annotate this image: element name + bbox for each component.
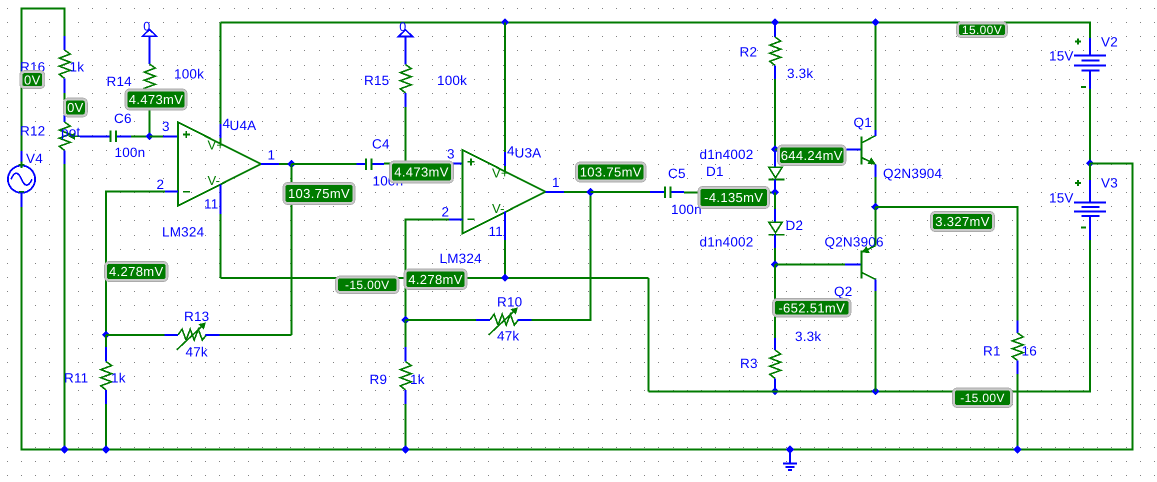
svg-text:U3A: U3A bbox=[515, 145, 542, 160]
wire U3A pin 2 left bbox=[449, 218, 463, 220]
resistor R9 1k bbox=[405, 320, 407, 347]
junction R1 bottom ground rail bbox=[1013, 445, 1021, 453]
wire U4A output node down bbox=[291, 164, 293, 335]
wire V3 minus down to rail bbox=[1089, 240, 1091, 392]
wire node A to U4A pin 3 bbox=[150, 135, 164, 137]
wire Q2 collector down bbox=[875, 280, 877, 292]
junction R2 top rail bbox=[771, 18, 779, 26]
svg-text:d1n4002: d1n4002 bbox=[700, 147, 754, 162]
wire C4 to U3A pin 3 bbox=[384, 163, 449, 165]
node A junction C6/R14/pin3 bbox=[145, 132, 153, 140]
battery V3 15V bbox=[1074, 202, 1106, 204]
wire Q2 base wire bbox=[775, 264, 845, 266]
svg-text:R9: R9 bbox=[370, 372, 388, 387]
voltage label 4.473mV at C4/U3A bbox=[390, 161, 454, 183]
svg-text:Q2N3904: Q2N3904 bbox=[883, 166, 942, 181]
svg-text:R15: R15 bbox=[364, 73, 389, 88]
junction D1 anode node bbox=[771, 145, 779, 153]
svg-text:C5: C5 bbox=[668, 166, 686, 181]
resistor R11 1k bbox=[105, 335, 107, 347]
svg-text:100k: 100k bbox=[174, 66, 204, 81]
junction U3A output node bbox=[586, 188, 594, 196]
svg-text:3.3k: 3.3k bbox=[787, 66, 813, 81]
wire Q1 emitter down bbox=[875, 165, 877, 177]
svg-text:3.327mV: 3.327mV bbox=[935, 214, 989, 229]
ground earth symbol bbox=[789, 449, 791, 463]
wire Q1 base wire bbox=[775, 148, 845, 150]
svg-text:3.3k: 3.3k bbox=[795, 329, 821, 344]
voltage label -4.135mV at C5 output bbox=[698, 187, 770, 209]
resistor R3 3.3k bbox=[774, 338, 776, 350]
potentiometer R12 bbox=[59, 122, 70, 150]
wire U4A pin 2 to feedback node bbox=[165, 191, 178, 193]
wire R12 wiper to C6 bbox=[80, 135, 110, 137]
svg-text:R11: R11 bbox=[64, 370, 88, 385]
svg-text:LM324: LM324 bbox=[440, 251, 483, 266]
wire ground bottom rail bbox=[21, 448, 1134, 450]
svg-text:D1: D1 bbox=[706, 164, 724, 179]
svg-text:R2: R2 bbox=[740, 44, 758, 59]
wire C6 to node A bbox=[131, 135, 150, 137]
junction U3A V- on -15V rail bbox=[501, 274, 509, 282]
svg-text:V+: V+ bbox=[208, 137, 225, 152]
wire R16-R12 junction bbox=[64, 78, 66, 93]
voltage label 15.00V top rail bbox=[957, 22, 1008, 38]
svg-text:R1: R1 bbox=[983, 343, 1001, 358]
wire U3A output pin 1 bbox=[546, 191, 565, 193]
svg-text:4.278mV: 4.278mV bbox=[408, 272, 462, 287]
svg-text:2: 2 bbox=[157, 177, 165, 192]
junction U4A output node bbox=[287, 160, 295, 168]
wire V4 column upper bbox=[21, 9, 23, 152]
svg-text:103.75mV: 103.75mV bbox=[288, 186, 350, 201]
svg-text:3: 3 bbox=[447, 146, 455, 161]
wire U4A output to C4 bbox=[292, 163, 357, 165]
svg-text:1k: 1k bbox=[70, 59, 85, 74]
junction V2/V3 midpoint bbox=[1086, 159, 1094, 167]
wire C5 to diode node bbox=[684, 191, 775, 193]
transistor Q1 Q2N3904 bbox=[860, 137, 862, 165]
voltage label 0V on R16/R12 node bbox=[63, 98, 87, 117]
junction D1/D2 node bbox=[771, 188, 779, 196]
voltage label 644.24mV at D1 anode bbox=[778, 145, 847, 166]
wire Q1 collector to top rail bbox=[875, 22, 877, 130]
wire R10 right up to output bbox=[590, 192, 592, 320]
op-amp U4A triangle bbox=[178, 122, 261, 206]
wire U3A V+ pin bbox=[504, 22, 506, 152]
resistor R1 16 bbox=[1017, 207, 1019, 321]
junction R11 bottom bbox=[102, 445, 110, 453]
voltage label -15.00V left rail bbox=[336, 276, 400, 294]
wire Q2 emitter up bbox=[875, 207, 877, 246]
svg-text:-15.00V: -15.00V bbox=[345, 278, 389, 292]
junction emitters node bbox=[871, 203, 879, 211]
svg-text:R3: R3 bbox=[740, 356, 758, 371]
svg-text:LM324: LM324 bbox=[162, 224, 205, 239]
junction ground on bottom rail bbox=[786, 445, 794, 453]
wire U4A V- pin down bbox=[219, 185, 221, 214]
svg-text:V-: V- bbox=[492, 201, 505, 216]
wire top-left horizontal V4 to R16 bbox=[21, 8, 66, 10]
svg-text:2: 2 bbox=[442, 204, 450, 219]
svg-text:R13: R13 bbox=[184, 309, 209, 324]
svg-text:Q2: Q2 bbox=[834, 284, 852, 299]
diode D2 d1n4002 bbox=[774, 192, 776, 209]
svg-text:100n: 100n bbox=[115, 145, 146, 160]
svg-text:1: 1 bbox=[268, 147, 276, 162]
svg-text:1k: 1k bbox=[111, 370, 126, 385]
wire -15V rail horizontal bbox=[220, 277, 648, 279]
svg-text:0: 0 bbox=[399, 20, 406, 34]
junction Q2 collector rail bbox=[871, 387, 879, 395]
svg-text:-652.51mV: -652.51mV bbox=[778, 300, 845, 315]
svg-text:103.75mV: 103.75mV bbox=[580, 165, 642, 180]
svg-text:D2: D2 bbox=[786, 218, 804, 233]
svg-text:15V: 15V bbox=[1049, 190, 1074, 205]
junction R9 bottom bbox=[401, 445, 409, 453]
wire U4A V+ pin to top rail bbox=[219, 22, 221, 124]
junction D2 cathode node bbox=[771, 260, 779, 268]
svg-text:15.00V: 15.00V bbox=[962, 23, 1002, 37]
junction R12 bottom bbox=[60, 445, 68, 453]
voltage label 4.278mV at R11 node bbox=[105, 262, 169, 282]
junction Q1 collector top rail bbox=[871, 18, 879, 26]
svg-text:0V: 0V bbox=[67, 100, 84, 115]
svg-text:V-: V- bbox=[208, 173, 221, 188]
capacitor C6 100n bbox=[109, 131, 111, 143]
wire V4 column lower bbox=[21, 207, 23, 450]
svg-text:11: 11 bbox=[204, 196, 218, 211]
resistor R15 100k bbox=[400, 65, 411, 93]
wire pin2 node down bbox=[405, 219, 407, 321]
svg-text:-15.00V: -15.00V bbox=[960, 391, 1004, 405]
svg-text:0V: 0V bbox=[24, 72, 41, 87]
voltage label 4.473mV at R14 bbox=[125, 89, 187, 110]
wire top +15V rail bbox=[220, 21, 1091, 23]
junction R9/R10 node bbox=[401, 316, 409, 324]
svg-text:1k: 1k bbox=[410, 372, 425, 387]
svg-text:3: 3 bbox=[162, 119, 170, 134]
wire -15V vertical link bbox=[648, 278, 650, 392]
wire U3A V- pin bbox=[504, 212, 506, 240]
resistor R13 47k variable bbox=[165, 334, 179, 336]
svg-text:pot: pot bbox=[61, 124, 80, 139]
svg-text:100n: 100n bbox=[671, 202, 702, 217]
svg-text:4.473mV: 4.473mV bbox=[129, 92, 183, 107]
svg-text:R12: R12 bbox=[20, 123, 45, 138]
wire R15 bottom lead bbox=[405, 93, 407, 107]
wire midpoint to right drop bbox=[1090, 162, 1134, 164]
voltage label 4.278mV at R9 node bbox=[404, 269, 467, 290]
wire R14 top lead bbox=[149, 36, 151, 64]
wire V2 minus down bbox=[1089, 89, 1091, 164]
wire D2 node down to R3 bbox=[774, 265, 776, 339]
svg-text:V3: V3 bbox=[1101, 175, 1118, 190]
svg-text:1: 1 bbox=[552, 175, 560, 190]
op-amp U3A triangle bbox=[463, 150, 546, 234]
op-amp U3A plus input marker bbox=[468, 161, 475, 163]
svg-text:47k: 47k bbox=[186, 344, 208, 359]
wire top rail corner down to V2 bbox=[1089, 22, 1091, 38]
voltage label -652.51mV at D2 node bbox=[773, 299, 852, 318]
junction U3A V+ top rail bbox=[501, 18, 509, 26]
voltage label 103.75mV at U4A output bbox=[283, 183, 355, 205]
svg-text:4.278mV: 4.278mV bbox=[109, 264, 163, 279]
voltage label 3.327mV at emitters bbox=[931, 212, 995, 232]
ground 0 node above R14 bbox=[143, 30, 157, 37]
svg-text:-4.135mV: -4.135mV bbox=[704, 190, 763, 205]
svg-text:d1n4002: d1n4002 bbox=[700, 234, 754, 249]
wire U3A output to C5 bbox=[591, 191, 651, 193]
transistor Q2 Q2N3906 bbox=[860, 251, 862, 279]
op-amp U4A minus input marker bbox=[183, 191, 190, 193]
svg-text:0: 0 bbox=[143, 20, 150, 34]
wire R16 top lead bbox=[64, 9, 66, 37]
voltage label 103.75mV at U3A output bbox=[576, 162, 647, 182]
svg-text:V4: V4 bbox=[26, 151, 43, 166]
wire output stage -15V rail bbox=[649, 390, 1092, 392]
capacitor C5 100n bbox=[650, 191, 664, 193]
svg-text:100k: 100k bbox=[437, 73, 467, 88]
resistor R14 100k bbox=[144, 64, 155, 92]
svg-text:11: 11 bbox=[489, 224, 503, 239]
capacitor C4 100n bbox=[357, 163, 365, 165]
ground 0 node above R15 bbox=[399, 30, 413, 37]
svg-text:C6: C6 bbox=[114, 111, 132, 126]
op-amp U3A minus input marker bbox=[468, 218, 475, 220]
diode D1 d1n4002 bbox=[774, 149, 776, 167]
svg-text:15V: 15V bbox=[1049, 48, 1074, 63]
resistor R10 47k variable bbox=[406, 319, 477, 321]
battery V2 15V bbox=[1074, 55, 1106, 57]
junction R11/R13 node bbox=[102, 331, 110, 339]
wire feedback horizontal to R13 bbox=[220, 334, 292, 336]
svg-text:Q1: Q1 bbox=[854, 115, 872, 130]
wire R12 bottom lead bbox=[64, 150, 66, 164]
svg-text:644.24mV: 644.24mV bbox=[781, 148, 843, 163]
source V4 sine source bbox=[21, 151, 23, 166]
svg-text:R10: R10 bbox=[497, 294, 522, 309]
junction R3 bottom bbox=[771, 387, 779, 395]
resistor R2 3.3k bbox=[774, 22, 776, 37]
wire R15 top lead bbox=[405, 37, 407, 65]
voltage label 0V on V4 wire bbox=[20, 71, 45, 89]
svg-text:16: 16 bbox=[1022, 343, 1037, 358]
svg-text:V2: V2 bbox=[1101, 34, 1118, 49]
wire R13 left to node bbox=[106, 334, 165, 336]
wire emitters node to R1 bbox=[876, 206, 1019, 208]
svg-text:U4A: U4A bbox=[230, 118, 257, 133]
svg-text:C4: C4 bbox=[372, 136, 390, 151]
wire midpoint down to V3 bbox=[1089, 163, 1091, 180]
wire U4A output pin 1 bbox=[261, 163, 279, 165]
op-amp U4A plus input marker bbox=[183, 133, 190, 135]
svg-text:R14: R14 bbox=[107, 74, 133, 89]
svg-text:V+: V+ bbox=[492, 165, 509, 180]
svg-text:47k: 47k bbox=[497, 328, 519, 343]
resistor R16 1k bbox=[59, 50, 70, 78]
voltage label -15.00V bottom rail bbox=[953, 388, 1013, 408]
svg-text:4.473mV: 4.473mV bbox=[394, 165, 448, 180]
wire R14 bottom lead bbox=[149, 92, 151, 136]
